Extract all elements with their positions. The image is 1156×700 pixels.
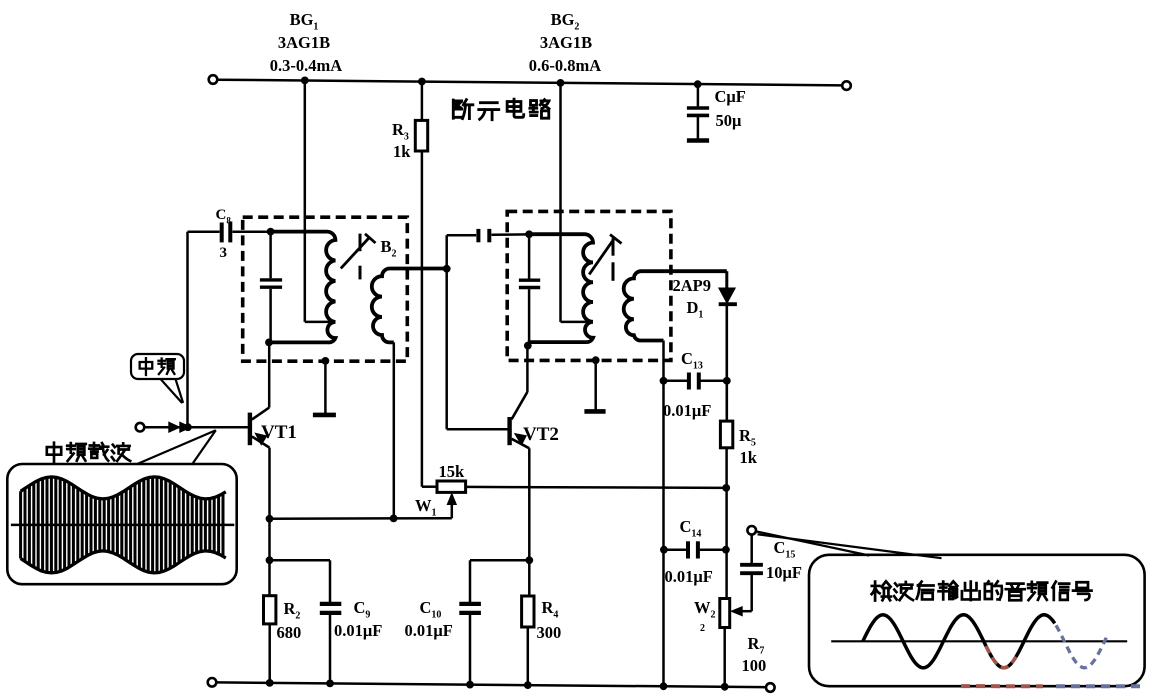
wire: BG2 collector feed to tap xyxy=(561,83,591,322)
wire: R5 bottom lead xyxy=(725,448,728,599)
svg-text:VT2: VT2 xyxy=(523,424,559,445)
label CuF 50u xyxy=(715,87,746,130)
label C8 3 xyxy=(216,207,232,261)
capacitor: B2 tuning cap xyxy=(260,232,282,343)
svg-text:3: 3 xyxy=(220,245,228,261)
transistor VT1 emitter arrow (PNP) xyxy=(255,433,266,445)
label D1 xyxy=(687,298,704,321)
terminal: bottom-left xyxy=(208,678,217,687)
waveform: detected audio sine xyxy=(863,615,1055,668)
potentiometer W2 body xyxy=(720,599,730,628)
label BG2 3AG1B 0.6-0.8mA xyxy=(529,10,601,75)
wire: C15 top lead xyxy=(750,535,753,563)
label B2 xyxy=(381,237,397,260)
wire: junction up and to coupling cap xyxy=(447,235,477,269)
wire: shield ground lead xyxy=(324,361,327,413)
svg-text:3AG1B: 3AG1B xyxy=(278,33,330,52)
terminal: top-right supply terminal xyxy=(842,81,851,90)
adjuster arrow of B2 xyxy=(341,234,376,269)
wire: BG1 collector feed to B2 tap xyxy=(305,80,333,322)
node: C14 left junction xyxy=(660,546,668,554)
resistor R3 xyxy=(415,120,427,151)
artifact: blue dashes on bubble edge xyxy=(1056,684,1140,688)
capacitor C 50uF plates xyxy=(687,108,709,115)
node: R2 bottom xyxy=(266,679,274,687)
label R3 1k xyxy=(392,120,411,161)
artifact: red dashes on bubble edge xyxy=(961,684,1043,688)
waveform: audio baseline xyxy=(831,640,1127,642)
node: C9 bottom xyxy=(326,680,334,688)
wire: bottom rail xyxy=(216,682,766,687)
svg-text:2AP9: 2AP9 xyxy=(673,276,712,295)
node: C13 left junction xyxy=(660,377,668,385)
label 15k xyxy=(439,462,466,481)
node: R4/C10 junction xyxy=(525,556,533,564)
diode D1 2AP9 xyxy=(719,288,737,304)
node: R5/W1-line junction xyxy=(722,484,730,492)
wire: junction down to VT2 base xyxy=(447,269,508,430)
callout bubble: detected audio signal xyxy=(757,532,1145,687)
capacitor C14 xyxy=(664,541,726,558)
label C10 0.01uF xyxy=(405,598,453,640)
label R4 300 xyxy=(537,598,562,642)
node: C13 right junction xyxy=(723,377,731,385)
label 2AP9 xyxy=(673,276,712,295)
transistor VT2 emitter arrow (PNP) xyxy=(515,434,526,445)
svg-text:300: 300 xyxy=(537,623,562,642)
label W2 xyxy=(694,598,716,634)
label C9 0.01uF xyxy=(334,598,382,640)
terminal: bottom-right xyxy=(766,683,775,692)
label C13 xyxy=(681,349,703,372)
svg-text:50μ: 50μ xyxy=(716,111,743,130)
svg-text:0.3-0.4mA: 0.3-0.4mA xyxy=(270,56,342,75)
node: R4 bottom xyxy=(524,681,532,689)
svg-text:1k: 1k xyxy=(393,142,411,161)
inductor: transformer2 primary winding xyxy=(528,234,593,342)
label C14 xyxy=(680,517,702,540)
wire: filter cap top lead xyxy=(697,84,700,106)
svg-text:0.01μF: 0.01μF xyxy=(334,621,382,640)
terminal: IF input xyxy=(136,423,145,432)
ground: first IF transformer xyxy=(313,413,336,418)
annotation: 断开电路 (break the circuit) xyxy=(453,99,549,119)
svg-text:3AG1B: 3AG1B xyxy=(540,33,592,52)
label W1 xyxy=(415,496,437,519)
capacitor C10 xyxy=(459,604,481,685)
wire: secondary2 top to diode xyxy=(725,271,728,288)
wire: W1 wiper lead xyxy=(451,503,454,518)
waveform: IF carrier baseline xyxy=(11,524,234,527)
label VT2 xyxy=(523,424,559,445)
resistor R4 xyxy=(522,596,534,627)
wire: C9 branch xyxy=(270,560,331,602)
capacitor C9 xyxy=(320,604,342,684)
wire: C8 to tank node xyxy=(233,230,271,233)
wire: R2 bottom lead xyxy=(268,624,271,684)
node: BG1 collector feed junction xyxy=(301,77,309,85)
terminal: top-left supply terminal xyxy=(209,75,218,84)
wire: input to VT1 base xyxy=(144,426,248,429)
adjuster arrow of transformer2 xyxy=(589,235,621,275)
label R2 680 xyxy=(277,599,302,642)
arrow: W2 wiper xyxy=(731,607,742,616)
wire: C10 branch xyxy=(470,560,529,602)
inductor: B2 secondary winding xyxy=(372,269,447,343)
capacitor C15 (electrolytic) xyxy=(740,565,763,573)
label VT1 xyxy=(261,422,297,443)
node: tank2 bottom xyxy=(524,342,532,350)
label R5 1k xyxy=(739,426,758,467)
label C15 value 10uF xyxy=(766,563,802,582)
svg-text:10μF: 10μF xyxy=(766,563,802,582)
inductor: transformer2 secondary winding xyxy=(624,271,727,340)
waveform: red dashed artifact on sine xyxy=(986,646,1016,668)
inductor: B2 primary winding xyxy=(269,232,335,343)
wire: shield2 ground lead xyxy=(594,360,597,409)
svg-text:0.01μF: 0.01μF xyxy=(665,567,713,586)
node: emitter junction xyxy=(266,515,274,523)
arrow: W1 wiper xyxy=(447,494,456,505)
transistor VT2 base bar xyxy=(507,417,511,445)
node: BG2 collector feed junction xyxy=(557,79,565,87)
wire: R3 bottom lead down to W1 xyxy=(422,151,437,487)
svg-text:2: 2 xyxy=(700,623,705,634)
svg-text:100: 100 xyxy=(742,656,767,675)
waveform: audio sine faded tail xyxy=(1056,625,1108,668)
resistor R5 xyxy=(720,421,732,448)
svg-text:680: 680 xyxy=(277,623,302,642)
label 检波后输出的音频信号 xyxy=(872,581,1092,600)
node: W2 bottom xyxy=(721,683,729,691)
wire: VT2 emitter down to R4 xyxy=(528,448,531,596)
transistor VT1 collector lead xyxy=(252,342,269,419)
label R7 100 xyxy=(742,634,767,675)
wire: emitter line down to R2 xyxy=(268,519,271,596)
svg-text:0.01μF: 0.01μF xyxy=(405,621,453,640)
wire: filter cap bottom lead xyxy=(697,117,700,139)
label C13 value xyxy=(663,401,711,420)
potentiometer W1 body xyxy=(437,481,466,492)
svg-text:0.6-0.8mA: 0.6-0.8mA xyxy=(529,56,601,75)
svg-text:VT1: VT1 xyxy=(261,422,297,443)
node: B2 secondary top junction xyxy=(443,265,451,273)
label C15 xyxy=(774,538,796,561)
wire: W2 bottom lead xyxy=(723,628,726,687)
wire: secondary2 bottom down xyxy=(662,341,665,686)
node: C14 right junction xyxy=(722,546,730,554)
waveform: modulated carrier xyxy=(21,477,226,573)
filter cap bottom terminal bar xyxy=(687,138,709,142)
wire: diode cathode down xyxy=(725,304,728,421)
node: C10 bottom xyxy=(466,681,474,689)
arrow: signal direction 1 xyxy=(169,422,180,432)
label 中频载波 xyxy=(47,443,130,462)
node: B2 tank bottom xyxy=(265,339,273,347)
arrow: signal direction 2 xyxy=(180,422,191,432)
transistor VT1 base bar xyxy=(248,413,252,446)
capacitor C13 xyxy=(664,373,727,390)
node: B2 tank top xyxy=(267,228,275,236)
label BG1 3AG1B 0.3-0.4mA xyxy=(270,10,342,75)
wire: C8 left lead down to input xyxy=(186,232,189,427)
transistor VT1 emitter lead xyxy=(252,437,270,448)
wire: VT1 emitter down xyxy=(268,448,271,519)
node: B2 secondary return junction xyxy=(390,515,398,523)
node: C filter cap junction xyxy=(694,80,702,88)
callout bubble 中频 xyxy=(131,354,184,403)
svg-text:1k: 1k xyxy=(740,448,758,467)
wire: top supply rail xyxy=(217,80,842,86)
wire: R4 bottom lead xyxy=(527,627,530,685)
IF transformer B2 shield (dashed box) xyxy=(243,217,408,361)
ground: second IF transformer xyxy=(584,409,605,414)
callout bubble: modulated IF carrier 中频载波 xyxy=(7,430,236,584)
wire: C15 bottom to W2 wiper xyxy=(742,575,752,611)
node: secondary2 return bottom xyxy=(660,682,668,690)
node: B2 shield ground tap xyxy=(322,357,330,365)
node: input junction xyxy=(184,423,192,431)
svg-text:0.01μF: 0.01μF xyxy=(663,401,711,420)
wire: W1 right to R5 bottom xyxy=(466,487,727,488)
label C14 value xyxy=(665,567,713,586)
terminal: audio output (C15 top) xyxy=(747,526,756,535)
IF transformer 2 shield (dashed box) xyxy=(507,211,671,360)
transistor VT2 collector lead xyxy=(512,346,528,420)
node: R2/C9 junction xyxy=(266,556,274,564)
wire: AGC line VT1 emitter to W1 wiper xyxy=(270,517,452,520)
capacitor: interstage coupling cap xyxy=(478,229,489,242)
wire: C8 left lead xyxy=(188,231,220,234)
wire: coupling cap to B3 tank xyxy=(492,233,530,236)
svg-text:15k: 15k xyxy=(439,462,466,481)
svg-text:CμF: CμF xyxy=(715,87,746,106)
transistor VT2 emitter lead xyxy=(512,439,530,449)
node: transformer2 shield ground tap xyxy=(592,356,600,364)
adjustable core of B2 (dashed) xyxy=(359,234,362,280)
resistor R2 xyxy=(264,596,276,624)
wire: B2 secondary bottom down to AGC line xyxy=(393,342,396,518)
wire: R3 top lead xyxy=(421,82,424,121)
node: tank2 top xyxy=(525,230,533,238)
adjustable core of transformer2 (dashed) xyxy=(612,238,615,280)
node: R3 top junction xyxy=(418,78,426,86)
capacitor: tank2 tuning cap xyxy=(519,234,540,345)
capacitor C8 coupling plates xyxy=(222,222,231,243)
